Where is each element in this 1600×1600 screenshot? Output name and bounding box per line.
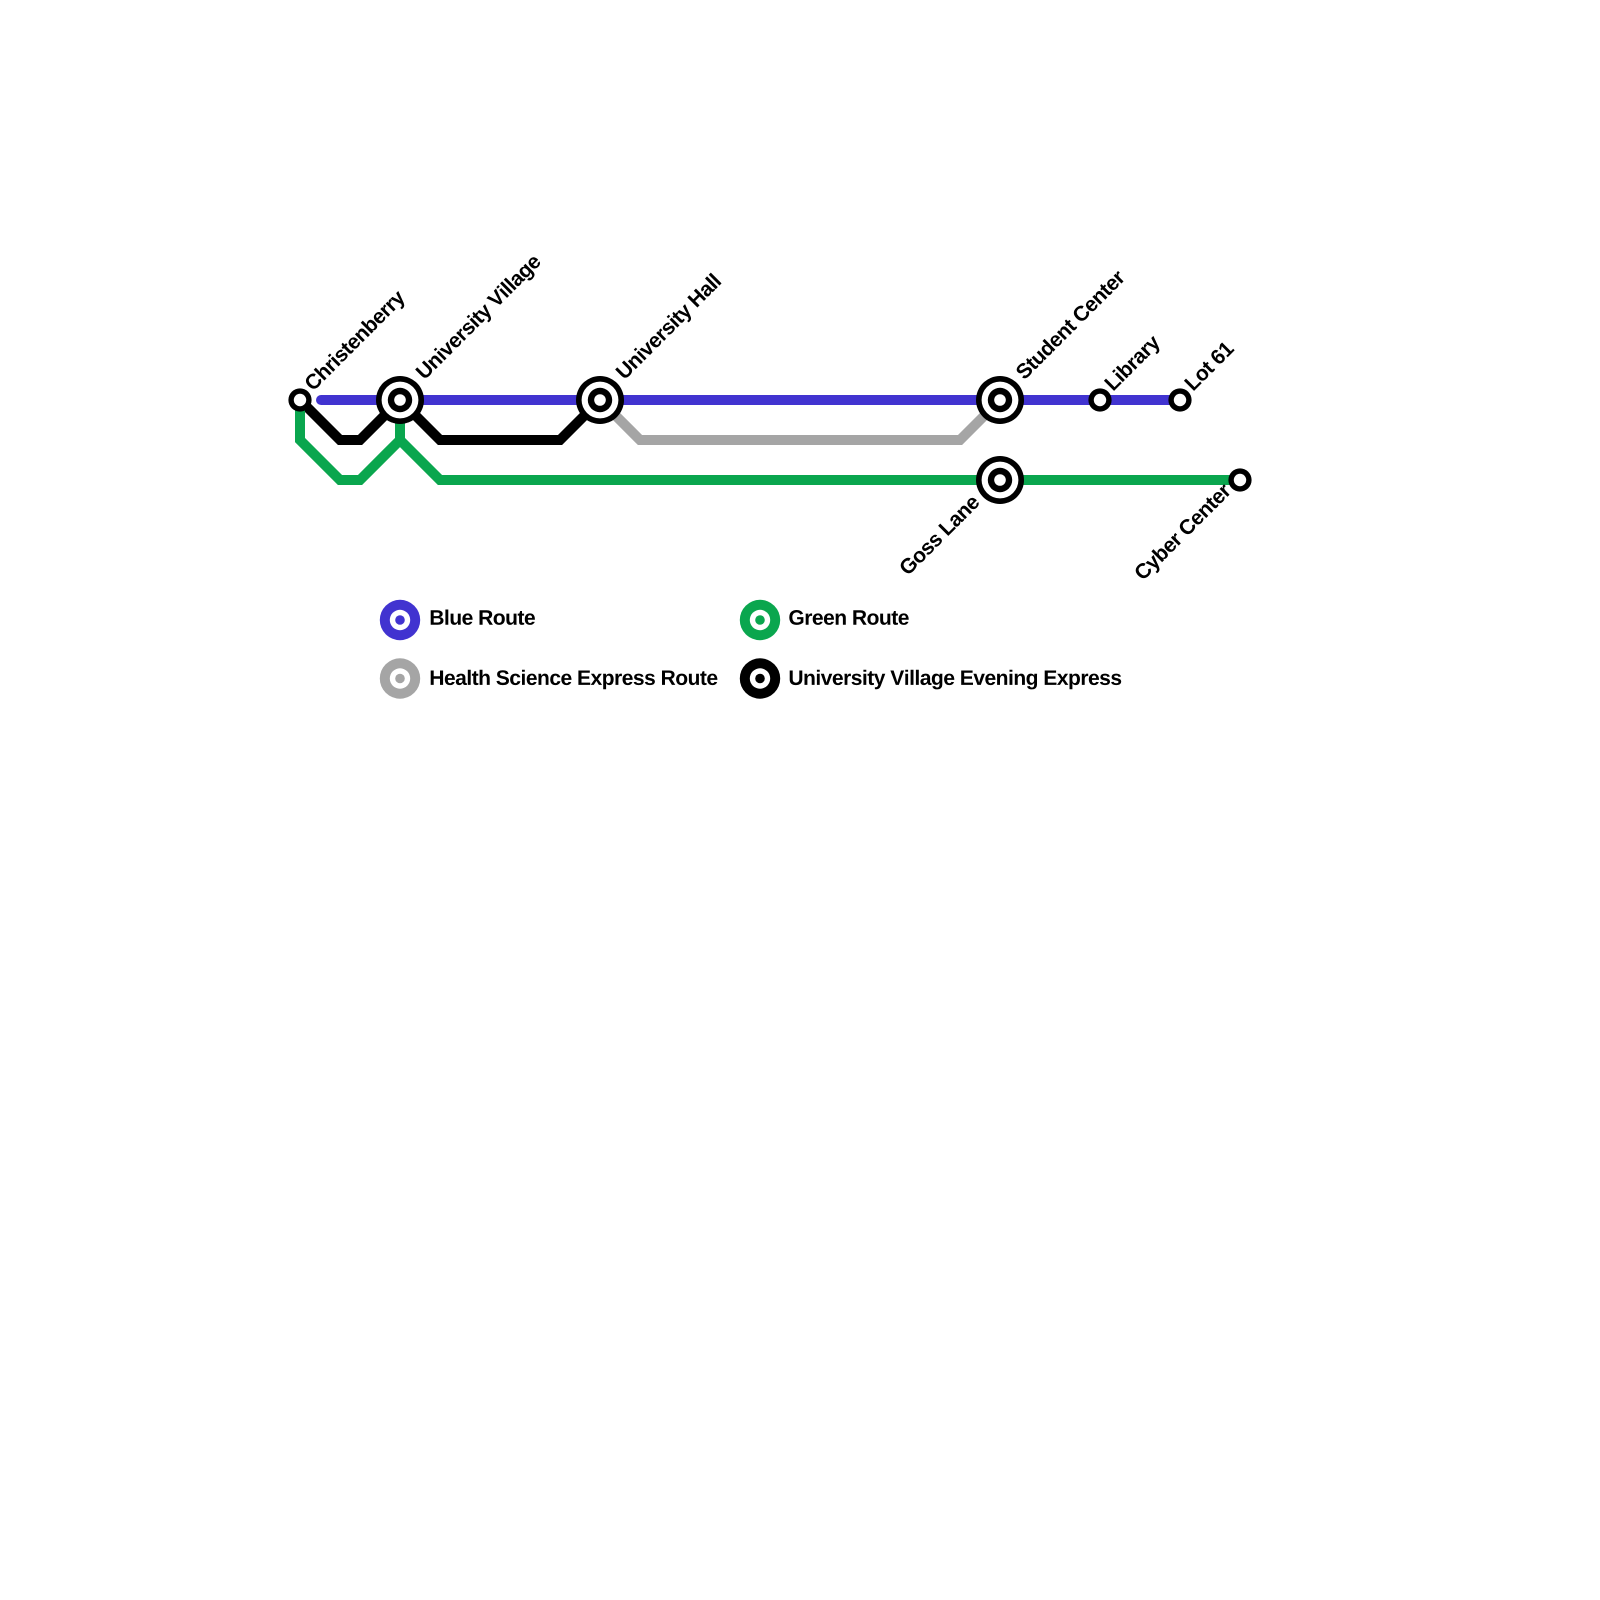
station Christenberry (small) xyxy=(288,388,311,411)
station Cyber Center (small) xyxy=(1228,468,1251,491)
Green Route line (east of University Village) xyxy=(400,400,1240,480)
station Student Center (interchange) xyxy=(976,376,1024,424)
legend text Health Science Express Route xyxy=(431,670,718,690)
label Cyber Center xyxy=(1133,481,1235,583)
station Library (small) xyxy=(1088,388,1111,411)
label Lot 61 xyxy=(1184,340,1235,391)
legend icon Blue Route xyxy=(380,600,420,640)
label Goss Lane xyxy=(898,493,981,576)
Health Science Express Route line (gray) xyxy=(600,400,1000,440)
station University Village (interchange) xyxy=(376,376,424,424)
University Village Evening Express line (black) xyxy=(300,400,600,440)
legend text Blue Route xyxy=(431,610,535,625)
label Library xyxy=(1103,333,1164,394)
legend icon University Village Evening Express xyxy=(740,658,780,698)
station Lot 61 (small) xyxy=(1168,388,1191,411)
station University Hall (interchange) xyxy=(576,376,624,424)
legend text University Village Evening Express xyxy=(790,670,1121,690)
legend text Green Route xyxy=(789,610,908,625)
label Christenberry xyxy=(303,288,409,394)
label Student Center xyxy=(1014,268,1126,380)
station Goss Lane (interchange) xyxy=(976,456,1024,504)
Green Route line xyxy=(300,400,400,480)
label University Village xyxy=(415,252,545,382)
legend icon Health Science Express Route xyxy=(380,658,420,698)
legend icon Green Route xyxy=(740,600,780,640)
label University Hall xyxy=(615,273,725,383)
Blue Route line xyxy=(321,395,1180,405)
